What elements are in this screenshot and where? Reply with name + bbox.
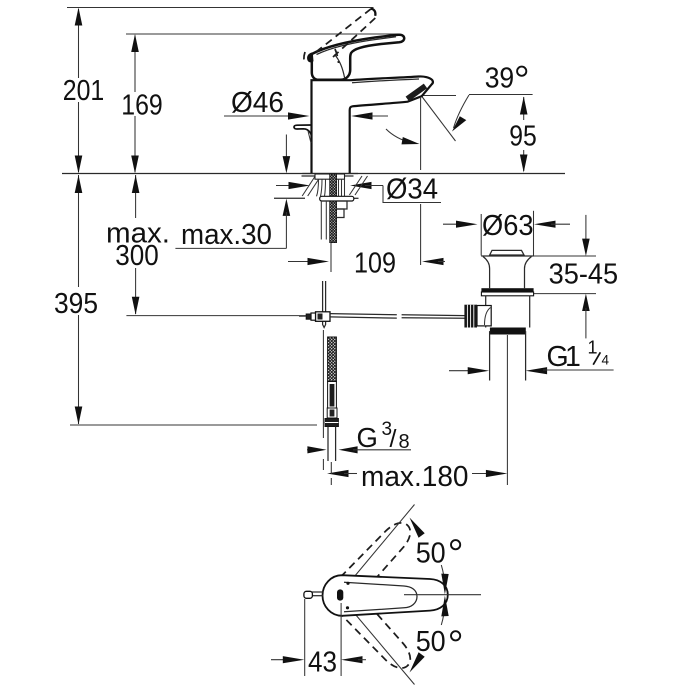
dimension 395 (54, 175, 98, 425)
dimension 35-45 (528, 215, 618, 339)
dimension 169 (121, 34, 163, 174)
handle raised dashed (304, 8, 378, 63)
dimension 95 (509, 97, 537, 173)
dimension Ø63 (443, 210, 570, 256)
braided hose (325, 337, 338, 427)
top view dashed handle lower (332, 586, 418, 685)
centerline segment under shank (330, 243, 332, 272)
svg-text:50: 50 (416, 538, 446, 570)
dimension 109 (288, 248, 445, 280)
svg-text:50: 50 (416, 626, 446, 658)
faucet body outline (302, 76, 433, 176)
extension line handle top (126, 33, 399, 35)
counter top line (62, 173, 565, 175)
svg-text:4: 4 (602, 353, 610, 368)
threaded rod (330, 174, 337, 243)
pull rod lower (323, 281, 326, 470)
drain ring (481, 288, 533, 296)
drain neck (490, 269, 525, 289)
label G 3/8 (307, 419, 411, 453)
supply pipe G3/8 (328, 427, 336, 486)
counter section hatching (274, 176, 368, 199)
dimension 201 (63, 8, 105, 174)
svg-text:1: 1 (588, 338, 598, 358)
drain bottom band (490, 328, 526, 335)
50 degree arc lower (410, 596, 461, 673)
top view centerline (404, 594, 481, 596)
svg-text:Ø46: Ø46 (231, 87, 284, 119)
svg-text:201: 201 (63, 75, 105, 107)
svg-text:35-45: 35-45 (549, 259, 619, 291)
svg-text:109: 109 (354, 248, 396, 280)
svg-text:1: 1 (565, 341, 581, 373)
cross fitting on pull rod (299, 312, 330, 322)
label Ø46 with leader (224, 87, 388, 120)
svg-text:/: / (390, 425, 397, 453)
svg-text:max.180: max.180 (361, 461, 469, 493)
label Ø34 with leader (276, 174, 441, 206)
drain side port (477, 306, 491, 326)
label 39 degrees (386, 63, 533, 145)
mounting shank below counter (315, 174, 345, 196)
dimension 43 (271, 599, 366, 678)
reference line 395 bottom (70, 424, 317, 426)
dimension max.180 (327, 461, 507, 493)
pop-up rod horizontal (330, 314, 465, 319)
pull rod below counter (321, 201, 326, 240)
svg-text:95: 95 (509, 120, 537, 152)
dimension max.300 (106, 175, 170, 315)
mounting nut (337, 201, 347, 218)
svg-text:G: G (357, 422, 378, 453)
top view pin (304, 591, 324, 598)
extension line aerator center (420, 98, 422, 265)
top view dashed handle upper (332, 505, 418, 606)
svg-text:169: 169 (121, 89, 163, 121)
faucet spout aerator (406, 84, 428, 102)
mounting washer (320, 196, 354, 201)
svg-text:43: 43 (308, 646, 337, 678)
svg-text:39: 39 (485, 63, 515, 95)
extension line top (raised handle height) (67, 7, 374, 9)
svg-text:Ø63: Ø63 (482, 210, 534, 242)
pull rod hook behind faucet (294, 125, 312, 143)
drain lower body (486, 296, 530, 328)
drain knurled knob (464, 305, 477, 328)
reference line max.300 bottom (126, 315, 307, 317)
label G1 1/4 (449, 338, 614, 375)
svg-text:Ø34: Ø34 (386, 174, 438, 206)
svg-text:395: 395 (54, 288, 98, 320)
svg-text:300: 300 (115, 240, 159, 272)
drain tailpipe (490, 331, 526, 485)
dimension max.30 (175, 135, 290, 252)
drain flange (481, 250, 533, 268)
50 degree arc upper (410, 518, 461, 595)
top view handle solid (323, 575, 448, 616)
svg-text:max.30: max.30 (181, 219, 272, 251)
faucet handle lever solid (307, 35, 419, 83)
